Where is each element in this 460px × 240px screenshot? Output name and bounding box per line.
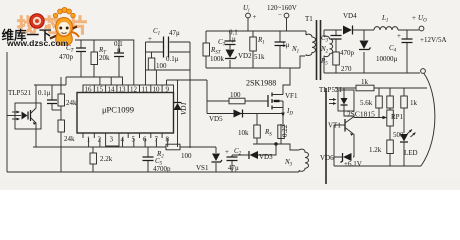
- svg-text:13: 13: [119, 86, 127, 94]
- svg-text:+6.1V: +6.1V: [344, 160, 362, 168]
- wire: RT/CT node to pins: [34, 77, 123, 85]
- zener clamp at VD4: [359, 30, 371, 73]
- transistor VT1 2SC1815: [328, 110, 375, 158]
- capacitor C5 4700p: [143, 147, 172, 173]
- svg-text:VD2: VD2: [238, 52, 252, 60]
- svg-text:270: 270: [341, 65, 352, 73]
- capacitor 0.1u timing: [114, 40, 124, 77]
- resistor 5.6k: [360, 88, 382, 108]
- svg-text:24k: 24k: [64, 135, 75, 143]
- svg-text:0.22: 0.22: [281, 124, 289, 137]
- svg-text:VD5: VD5: [209, 115, 223, 123]
- svg-text:10: 10: [153, 86, 161, 94]
- wire: secondary return rail: [324, 72, 420, 74]
- svg-text:10k: 10k: [238, 129, 249, 137]
- svg-text:VD1: VD1: [180, 102, 188, 115]
- winding N2: [320, 30, 333, 73]
- capacitor C2 47u: [225, 147, 242, 172]
- svg-text:VT1: VT1: [328, 122, 341, 130]
- wire: HV+ top rail: [206, 30, 306, 32]
- diode VD3: [232, 151, 273, 161]
- svg-text:16: 16: [85, 86, 93, 94]
- resistor RS 0.22: [264, 124, 289, 144]
- svg-text:VD6: VD6: [320, 154, 334, 162]
- wire: C1 right rail: [189, 42, 191, 148]
- resistor 1.2k: [369, 140, 393, 166]
- terminal output minus: [421, 69, 426, 74]
- resistor 1k LED: [401, 88, 418, 133]
- resistor 24k lower: [58, 120, 75, 172]
- svg-text:47μ: 47μ: [169, 29, 180, 37]
- resistor 1k series: [356, 78, 374, 91]
- inductor L1: [374, 14, 419, 30]
- node: sense junction: [274, 142, 277, 145]
- svg-text:9: 9: [166, 86, 170, 94]
- wire: drain to N1: [283, 56, 305, 88]
- capacitor C4 10000u: [376, 30, 413, 73]
- wire: secondary top rail: [324, 29, 342, 31]
- wire: left input rail: [6, 52, 8, 172]
- wire: top timing bus: [75, 40, 134, 85]
- wire: right curved return: [421, 74, 435, 167]
- mascot face: [56, 18, 73, 37]
- arrow to RP1 wiper: [383, 116, 388, 120]
- potentiometer RP1 500: [387, 110, 404, 140]
- mascot arm right: [70, 32, 79, 37]
- svg-text:+: +: [412, 14, 416, 22]
- capacitor C3 470p: [321, 30, 355, 57]
- svg-text:100k: 100k: [210, 55, 225, 63]
- svg-text:+: +: [253, 13, 257, 21]
- wire: pin9 vcc bus: [167, 80, 208, 85]
- capacitor C1 47u: [146, 27, 191, 48]
- resistor 10k: [238, 113, 260, 144]
- resistor 100 gate: [229, 91, 245, 104]
- wire: gate drive: [207, 80, 268, 114]
- wire: junction to VD3: [258, 144, 276, 155]
- mosfet VF1: [268, 88, 298, 110]
- svg-text:100: 100: [181, 152, 192, 160]
- svg-text:100: 100: [156, 62, 167, 70]
- svg-text:μ: μ: [232, 35, 236, 43]
- zener VD6: [320, 153, 362, 168]
- svg-text:5.6k: 5.6k: [360, 99, 373, 107]
- svg-text:μ: μ: [117, 46, 121, 54]
- svg-text:24k: 24k: [66, 99, 77, 107]
- diode VD5: [209, 110, 243, 124]
- svg-text:1k: 1k: [361, 78, 369, 86]
- wire: opto collector lead: [35, 85, 37, 103]
- svg-text:10000μ: 10000μ: [376, 55, 398, 63]
- svg-text:11: 11: [142, 86, 149, 94]
- resistor 2.2k: [90, 147, 113, 172]
- svg-text:12: 12: [130, 86, 138, 94]
- svg-text:14: 14: [108, 86, 116, 94]
- diode VD1: [174, 80, 189, 147]
- resistor R2 100: [148, 144, 216, 160]
- svg-text:VF1: VF1: [285, 92, 298, 100]
- resistor divider upper: [387, 88, 394, 110]
- divider line: [325, 88, 327, 184]
- zener VS1: [196, 147, 222, 172]
- winding N3: [284, 149, 309, 172]
- terminal 120-160V: [267, 4, 297, 31]
- svg-text:www.dzsc.com: www.dzsc.com: [6, 38, 69, 48]
- resistor 24k upper: [58, 77, 77, 120]
- wire: feedback ground rail: [334, 165, 421, 167]
- svg-text:1μ: 1μ: [282, 41, 290, 49]
- svg-text:+: +: [148, 35, 152, 43]
- svg-text:+: +: [225, 148, 229, 156]
- resistor RT: [91, 40, 110, 77]
- terminal Ui: [243, 4, 257, 31]
- arrow ID: [281, 107, 293, 122]
- wire: bottom pin bus: [33, 129, 168, 147]
- capacitor CT: [59, 40, 86, 77]
- optocoupler U-right TLP521: [319, 86, 354, 111]
- wire: source node: [207, 114, 283, 125]
- transformer T1 core: [305, 15, 321, 80]
- svg-text:15: 15: [96, 86, 104, 94]
- svg-text:0.1μ: 0.1μ: [38, 89, 51, 97]
- optocoupler U-left TLP521: [7, 89, 41, 129]
- svg-text:LED: LED: [404, 149, 418, 157]
- diode VD4: [343, 12, 374, 35]
- IC U1 uPC1099: [77, 85, 174, 146]
- resistor RST 100k: [203, 31, 225, 68]
- mascot stick: [50, 27, 77, 39]
- svg-text:RP1: RP1: [391, 113, 404, 121]
- svg-text:4700p: 4700p: [153, 165, 171, 173]
- wire: net pin10: [146, 70, 191, 85]
- capacitor 1u: [275, 31, 290, 68]
- zener VD2: [225, 45, 252, 69]
- resistor R1 51k: [250, 31, 265, 68]
- mascot body: [56, 34, 73, 46]
- svg-text:20k: 20k: [99, 54, 110, 62]
- svg-text:μPC1099: μPC1099: [102, 105, 134, 115]
- mascot crown: [53, 7, 75, 17]
- svg-text:2.2k: 2.2k: [100, 155, 113, 163]
- terminal +Uo: [412, 14, 447, 44]
- winding N1: [291, 31, 316, 56]
- svg-text:VD3: VD3: [259, 153, 273, 161]
- wire: cap to 24k node: [52, 109, 61, 111]
- capacitor 0.1u opto: [38, 85, 57, 110]
- svg-text:0.1μ: 0.1μ: [166, 55, 179, 63]
- svg-text:100: 100: [230, 91, 241, 99]
- svg-text:2SK1988: 2SK1988: [246, 79, 276, 88]
- wire: VT1 collector node: [354, 108, 385, 118]
- capacitor C7 0.1u clamp: [218, 29, 238, 48]
- resistor 100 pin10: [148, 52, 167, 70]
- wire: bottom ground bus: [7, 171, 299, 173]
- svg-text:51k: 51k: [254, 53, 265, 61]
- svg-text:470p: 470p: [340, 49, 355, 57]
- wire: VT1 emitter to VD6: [353, 134, 354, 157]
- svg-text:VS1: VS1: [196, 164, 209, 172]
- svg-text:T1: T1: [305, 15, 313, 23]
- svg-text:1k: 1k: [410, 99, 418, 107]
- svg-text:3: 3: [110, 136, 114, 144]
- svg-text:+: +: [397, 32, 401, 40]
- wire: HV return rail: [206, 67, 300, 69]
- wire: feedback top rail: [335, 87, 427, 89]
- svg-text:+12V/5A: +12V/5A: [420, 36, 447, 44]
- wire: opto LED to collector node: [344, 111, 354, 116]
- svg-text:TLP521: TLP521: [8, 89, 31, 97]
- capacitor 0.1u pin bypass: [146, 47, 191, 64]
- svg-text:−: −: [278, 11, 282, 19]
- wire: sense node to N3: [253, 144, 299, 150]
- svg-text:470p: 470p: [59, 53, 74, 61]
- resistor R5 270: [320, 52, 352, 73]
- svg-text:VD4: VD4: [343, 12, 357, 20]
- svg-text:47μ: 47μ: [228, 164, 239, 172]
- svg-text:1.2k: 1.2k: [369, 146, 382, 154]
- red badge: [30, 14, 44, 28]
- wire: C1 left rail to pin 11: [145, 42, 147, 85]
- LED indicator: [400, 130, 418, 167]
